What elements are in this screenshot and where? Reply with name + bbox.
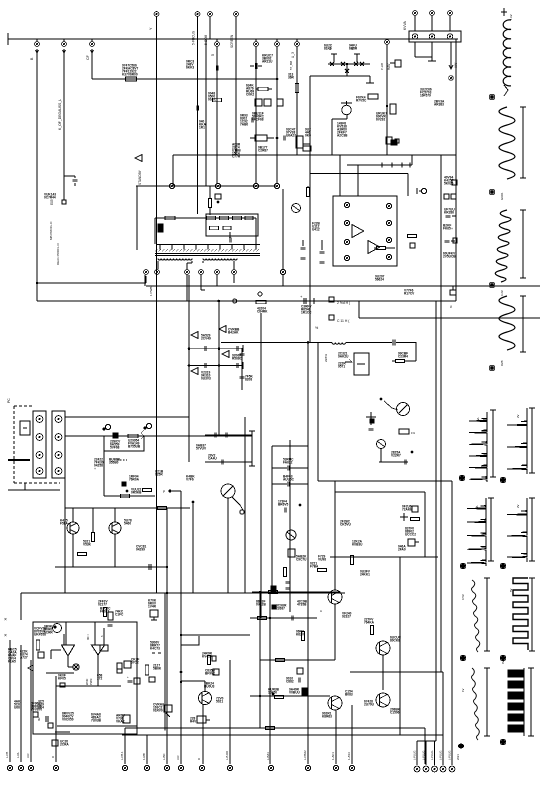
wire diode chain [347, 164, 412, 166]
svg-text:C 11 H (: C 11 H ( [337, 319, 350, 323]
svg-text:DEA1 PROFL.O: DEA1 PROFL.O [56, 242, 60, 265]
wire x310 down [309, 76, 311, 342]
component at rail end [450, 290, 456, 295]
waveform b4 right pulses [508, 670, 524, 677]
terminal top a [413, 11, 418, 16]
wire below connector [414, 42, 416, 57]
R tc [103, 608, 106, 617]
wire x297 [296, 46, 298, 155]
svg-text:C1506: C1506 [390, 711, 400, 715]
pin tick [171, 245, 173, 250]
transistor Q out1 [328, 590, 342, 604]
box right circuit top [305, 154, 456, 156]
connector KVVA box [409, 31, 461, 42]
svg-text:WOR: WOR [85, 679, 89, 685]
svg-text:+: + [127, 675, 129, 679]
svg-text:272: 272 [97, 677, 103, 681]
svg-text:P: P [163, 490, 165, 494]
transistor QA [67, 522, 79, 534]
terminal plug 1 [414, 766, 420, 772]
svg-text:V22R7: V22R7 [391, 454, 401, 458]
waveform b1 left [469, 412, 487, 482]
svg-text:1 PWB: 1 PWB [149, 287, 153, 296]
wire top right 76 [310, 75, 370, 77]
strip A pin1 [36, 416, 43, 423]
capacitor 394 [392, 340, 394, 346]
R 263 [258, 87, 268, 90]
trimmer arrow [384, 401, 398, 410]
wire strip bottom heavy [8, 459, 30, 461]
svg-text:3VL: 3VL [475, 505, 479, 510]
svg-text:-: - [93, 648, 94, 652]
terminal bottom 1-MB [144, 765, 149, 770]
coil mid [332, 343, 346, 345]
terminal plug 5 [449, 766, 455, 772]
wire T6 down [233, 275, 235, 283]
pot circle [240, 510, 244, 514]
strip A pin4 [36, 468, 43, 475]
capacitor degauss [73, 178, 78, 180]
wire [357, 165, 359, 196]
R 381 [377, 246, 386, 249]
svg-text:7U03B: 7U03B [91, 719, 102, 723]
jumper box [20, 421, 30, 435]
wire 318 down [317, 342, 319, 481]
stem 308 [307, 618, 309, 764]
wire drop com [205, 39, 207, 186]
svg-text:L-B.RD: L-B.RD [225, 751, 229, 760]
transistor QC [286, 530, 296, 540]
svg-text:C882: C882 [286, 680, 294, 684]
svg-text:×: × [4, 633, 7, 639]
wire [346, 342, 392, 344]
svg-text:R568C: R568C [232, 357, 243, 361]
junction 283 [36, 282, 38, 284]
cap 136 [286, 482, 288, 487]
wire [411, 155, 413, 165]
strip B pin3 [55, 452, 62, 459]
svg-text:V0BUU: V0BUU [289, 691, 301, 695]
R row2 a [210, 226, 219, 229]
svg-text:2CV49: 2CV49 [201, 337, 211, 341]
svg-text:1-AS3: 1-AS3 [347, 752, 351, 760]
terminal bottom L-BD [164, 765, 169, 770]
svg-text:5021: 5021 [216, 700, 223, 704]
waveform b1 right [507, 408, 527, 474]
strip B pin1 [55, 416, 62, 423]
R308 [306, 188, 309, 197]
terminal bottom L-PB.1 [122, 765, 127, 770]
terminal b1r [501, 478, 506, 483]
warning triangle standby [135, 155, 142, 162]
wire QB stem [114, 508, 116, 522]
wire col 441 [440, 155, 442, 672]
wire a1 out [67, 656, 69, 667]
terminal screen [234, 12, 239, 17]
component black [391, 140, 397, 145]
pin tick [243, 245, 245, 250]
diode z4 [191, 368, 198, 375]
wire rail 592b [252, 591, 340, 593]
svg-text:8208: 8208 [245, 378, 252, 382]
terminal top b [430, 11, 435, 16]
svg-text:V53K: V53K [83, 543, 92, 547]
diode x1 [330, 62, 334, 66]
svg-text:CA4U: CA4U [208, 457, 217, 461]
cap 405 [403, 460, 405, 465]
svg-text:9571: 9571 [338, 365, 345, 369]
wire T3 down [186, 275, 188, 301]
wire drop focus [197, 17, 199, 214]
primary box top [173, 154, 340, 156]
diode pair [28, 665, 33, 671]
label P [258, 292, 262, 296]
cap 226 [224, 433, 226, 438]
wire T5 down [216, 275, 218, 286]
terminal bl2 [18, 765, 23, 770]
wire [192, 502, 194, 593]
terminal 5-COM [208, 12, 213, 17]
cluster 295 [297, 668, 303, 674]
terminal bottom 1-AS3 [349, 765, 354, 770]
waveform b3 left noisy [472, 580, 480, 652]
svg-text:0.5V: 0.5V [461, 594, 465, 600]
wire 359 vert [358, 301, 360, 318]
pin T3 [185, 270, 190, 275]
svg-text:P-LIB: P-LIB [380, 63, 384, 70]
cap column 242 [241, 348, 243, 390]
svg-text:GVR1: GVR1 [500, 192, 504, 200]
svg-text:R17CV: R17CV [404, 292, 415, 296]
R box [255, 135, 267, 141]
terminal bottom L-BA1 [268, 765, 273, 770]
wire vert 290 [289, 440, 291, 612]
R 82 [78, 552, 87, 555]
R 93 [91, 533, 94, 542]
svg-text:E05: E05 [50, 199, 54, 205]
R 285 [283, 568, 286, 577]
wf3 axis [522, 210, 524, 278]
svg-text:22687: 22687 [276, 607, 285, 611]
svg-text:BU0U3: BU0U3 [204, 685, 215, 689]
wire drop screen [235, 17, 237, 155]
wire y173 [310, 173, 408, 175]
svg-text:02177: 02177 [98, 603, 107, 607]
capacitor 197 [196, 106, 198, 111]
svg-text:5T_BM: 5T_BM [289, 60, 293, 70]
wire rail 660 [260, 659, 335, 661]
junction [217, 300, 220, 303]
wire rail 728 [125, 727, 425, 729]
wire lv3 [30, 660, 32, 762]
component box [412, 506, 418, 512]
R 303b [301, 632, 304, 641]
wire 387 down [386, 45, 388, 155]
R 133h [128, 434, 138, 437]
wire 252 [251, 431, 253, 466]
svg-text:R: R [197, 758, 201, 760]
R vert [208, 199, 211, 208]
label H row 2 [329, 315, 334, 320]
terminal plug 4 [440, 766, 446, 772]
svg-text:U_3: U_3 [291, 52, 295, 58]
svg-text:67C2: 67C2 [131, 661, 139, 665]
wire x219 [218, 302, 220, 435]
wire [415, 342, 417, 361]
wire drop 256 [255, 47, 257, 183]
svg-text:SCREEN: SCREEN [230, 34, 234, 48]
svg-text:0FCF68: 0FCF68 [252, 118, 264, 122]
staircase wire [104, 436, 144, 451]
component 202 [197, 716, 206, 723]
svg-text:2V: 2V [516, 504, 520, 508]
wf4 axis [522, 296, 524, 352]
wire 340 drop [339, 155, 341, 196]
wire drop 277 [276, 47, 278, 183]
wire q7 down [346, 114, 348, 119]
svg-text:R2B: R2B [500, 360, 504, 366]
svg-text:K0B3U: K0B3U [352, 543, 363, 547]
terminal b1l [460, 476, 465, 481]
R 372 [370, 626, 373, 635]
R 270b [266, 726, 275, 729]
svg-text:L-PLUG: L-PLUG [430, 751, 434, 760]
R 412 [408, 234, 417, 237]
svg-text:2E5%: 2E5% [324, 354, 328, 362]
cap 237 [235, 346, 237, 351]
svg-text:AR21U: AR21U [262, 60, 273, 64]
terminal b4l [458, 744, 464, 749]
comp cross [400, 516, 408, 518]
terminal bottom L-B.RD [227, 765, 232, 770]
terminal DEGAUSS [62, 42, 67, 47]
IC STR row [155, 217, 256, 219]
wire [334, 604, 336, 660]
R 273 [269, 590, 278, 593]
terminal G4 [295, 42, 300, 47]
R 296 [295, 84, 298, 93]
svg-text:5-FOCUS: 5-FOCUS [192, 31, 196, 45]
stem 125 [124, 728, 126, 764]
caps 303 [301, 246, 306, 248]
junction dot [411, 451, 414, 454]
svg-text:16F579: 16F579 [420, 94, 431, 98]
svg-text:R7V5C: R7V5C [356, 99, 367, 103]
wire mid rail 342 [221, 342, 332, 344]
svg-text:04299: 04299 [136, 548, 145, 552]
svg-text:5460: 5460 [124, 522, 131, 526]
terminal bl1 [7, 765, 12, 770]
wire x181 [180, 660, 182, 764]
wire rail 672r [350, 671, 443, 673]
svg-text:1R1CC: 1R1CC [301, 311, 312, 315]
svg-text:81K6: 81K6 [324, 47, 332, 51]
svg-text:KVVA: KVVA [403, 20, 407, 30]
svg-text:0U3V3: 0U3V3 [201, 377, 211, 381]
svg-text:0K4: 0K4 [38, 706, 44, 710]
R 403b [399, 429, 409, 434]
arrow CF [91, 50, 94, 53]
voltage reg box [354, 353, 369, 375]
wire T4 down [200, 275, 202, 290]
svg-text:2CRA: 2CRA [60, 743, 69, 747]
test circle b [146, 423, 151, 428]
svg-text:+: + [451, 227, 453, 231]
svg-text:2V5UCB: 2V5UCB [443, 255, 456, 259]
component boxes [255, 99, 262, 106]
wire T1 down [144, 275, 146, 286]
transformer primary pin row [157, 244, 260, 246]
wire rail 618 [250, 617, 317, 619]
terminal top c [448, 11, 453, 16]
svg-text:6V292: 6V292 [376, 118, 385, 122]
svg-text:2FA0: 2FA0 [398, 548, 406, 552]
cluster right [117, 663, 122, 669]
svg-text:L-BD: L-BD [162, 754, 166, 760]
svg-text:1 kV: 1 kV [509, 14, 513, 20]
R 262b [258, 616, 267, 619]
R 162 [158, 506, 167, 509]
pin T4 [199, 270, 204, 275]
capacitor [282, 136, 284, 141]
diode mid [346, 64, 348, 76]
wire rail 696 [250, 695, 330, 697]
transformer winding A [158, 259, 192, 261]
svg-text:FA622: FA622 [283, 461, 293, 465]
R 125 [121, 494, 130, 497]
svg-text:56624: 56624 [375, 278, 384, 282]
terminal wf4 [489, 365, 495, 371]
pin tick [231, 245, 233, 250]
capacitor 150 [148, 564, 150, 570]
component d [408, 539, 415, 546]
terminal bottom 1-AC1 [333, 765, 338, 770]
svg-text:BR6V5: BR6V5 [278, 503, 289, 507]
strip A pin3 [36, 452, 43, 459]
pin circle c [253, 183, 258, 188]
transistor Q out2 [376, 641, 390, 655]
b3 axis [486, 578, 488, 651]
svg-text:FK65: FK65 [443, 227, 451, 231]
svg-text:0V62B: 0V62B [256, 603, 266, 607]
svg-text:2V: 2V [516, 414, 520, 418]
svg-text:R: R [51, 756, 55, 758]
junction [126, 490, 129, 493]
component boxes [444, 194, 449, 199]
svg-text:M2: M2 [37, 717, 41, 721]
svg-text:1-AC1: 1-AC1 [331, 752, 335, 760]
R e [245, 216, 253, 219]
wire rail 365 [189, 365, 243, 367]
wire loop 645 [181, 636, 199, 645]
component box bl [100, 645, 108, 651]
svg-text:K37V6R00: K37V6R00 [122, 73, 138, 77]
diode marks [380, 163, 382, 168]
wire long vertical x157 [156, 17, 158, 593]
component box 48 [48, 723, 53, 728]
svg-text:B755UB: B755UB [128, 445, 141, 449]
wire secondary rail 286 [146, 285, 540, 287]
svg-text:3-R: 3-R [176, 755, 180, 760]
wire [181, 680, 205, 682]
wire T7 drop [282, 189, 284, 269]
transistor Q7 [342, 105, 352, 115]
pin R2 [386, 220, 391, 225]
wire x21 [20, 593, 22, 620]
dash mark [117, 459, 127, 461]
svg-text:L-PB: L-PB [5, 752, 9, 758]
wire x181 long [180, 491, 182, 764]
wire [380, 449, 382, 462]
terminal b2r [501, 564, 506, 569]
waveform 4 wavy [499, 296, 515, 350]
wire pin row 186 [136, 185, 277, 187]
wire rail 567 [55, 566, 167, 568]
svg-text:%: % [449, 305, 453, 308]
op-amp A [352, 225, 364, 238]
svg-text:01RV0: 01RV0 [153, 709, 163, 713]
R c [220, 216, 229, 219]
pin L2 [344, 220, 349, 225]
pot arrow [232, 497, 243, 510]
svg-text:R4V: R4V [190, 720, 197, 724]
pin tick [207, 245, 209, 250]
transistor Q out5 [376, 693, 390, 707]
svg-text:4735B: 4735B [297, 603, 307, 607]
svg-text:5: 5 [211, 54, 215, 56]
wire vert 245 [244, 417, 246, 593]
arrow mark [141, 433, 144, 439]
svg-text:U412: U412 [312, 228, 320, 232]
comp cross 371 [366, 416, 376, 418]
R 279 [275, 695, 284, 698]
svg-text:K4C73: K4C73 [150, 647, 160, 651]
stem 147 [146, 735, 148, 764]
R 352b [350, 556, 353, 565]
pin L4 [344, 255, 349, 260]
pin circle a [169, 183, 174, 188]
svg-text:00AC: 00AC [208, 98, 217, 102]
wire rail 673 [46, 672, 74, 674]
svg-text:355B0: 355B0 [109, 461, 119, 465]
pin 3 [447, 34, 453, 40]
svg-text:1R1: 1R1 [199, 126, 205, 130]
wire x308 [307, 342, 309, 618]
hex comp [377, 440, 386, 449]
wire x425b [424, 728, 426, 764]
wire 335 [334, 481, 336, 590]
svg-text:MB PROFL.O: MB PROFL.O [49, 221, 53, 240]
wire x425 [424, 492, 426, 557]
svg-text:K62V: K62V [296, 633, 305, 637]
junction 347 [346, 63, 348, 65]
wire ic right [255, 218, 257, 244]
svg-text:K_OF_DEGAUSS_L: K_OF_DEGAUSS_L [58, 99, 62, 130]
wire x443 [442, 672, 444, 764]
diode z1 [191, 332, 198, 339]
waveform 1 sawtooth [503, 20, 511, 86]
T end [369, 76, 371, 83]
wire winding A left [157, 261, 159, 269]
pin T5 [215, 270, 220, 275]
svg-text:6B5R: 6B5R [349, 47, 358, 51]
component box [288, 549, 295, 557]
terminal wf1 [489, 94, 495, 100]
wire lv4 [55, 676, 57, 762]
svg-text:6V: 6V [501, 660, 505, 664]
svg-text:L-PB.1: L-PB.1 [120, 751, 124, 760]
wire pot down [227, 498, 229, 593]
